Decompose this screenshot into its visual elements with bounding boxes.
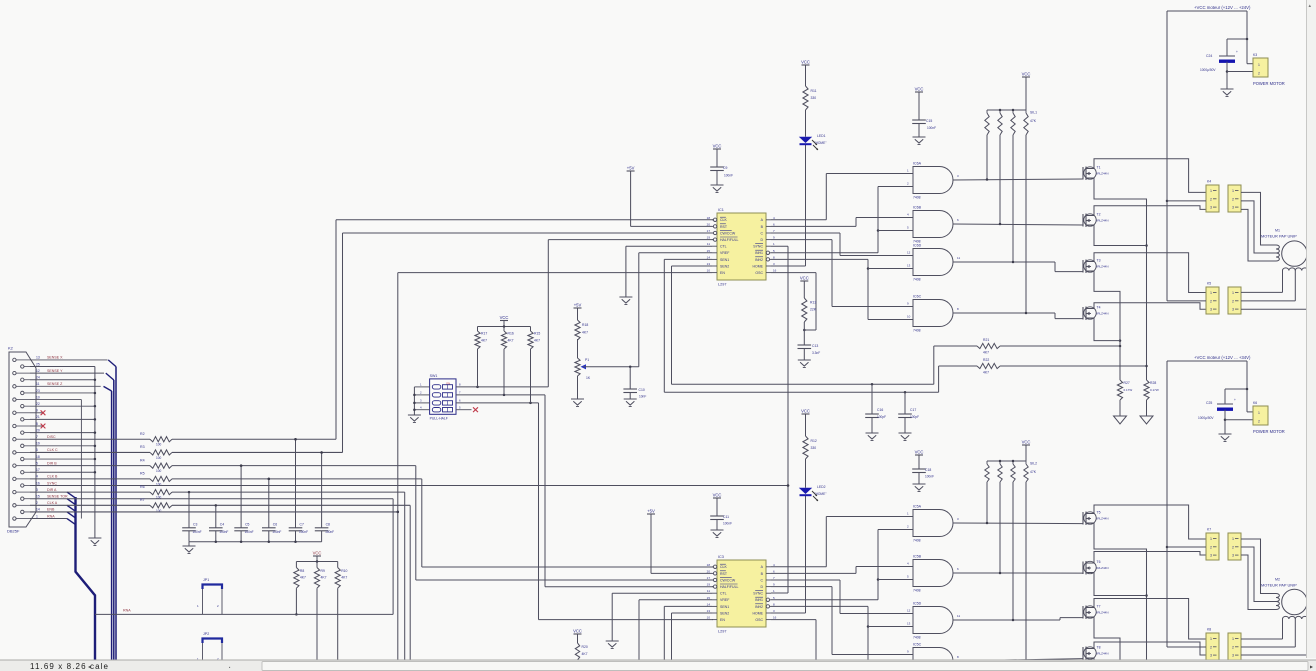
wire T1 drain to K4 pin1 bbox=[1094, 159, 1206, 193]
svg-text:+5V: +5V bbox=[627, 166, 635, 171]
svg-text:R4: R4 bbox=[140, 458, 145, 462]
svg-text:4K7: 4K7 bbox=[983, 371, 989, 375]
svg-text:LED2: LED2 bbox=[817, 485, 826, 489]
ground below C16 bbox=[866, 433, 879, 441]
bus A (navy) lower-left bbox=[76, 497, 96, 663]
svg-text:4K7: 4K7 bbox=[582, 331, 588, 335]
wire IC1 A to IC6A in1 bbox=[771, 174, 913, 220]
svg-text:R8: R8 bbox=[300, 569, 304, 573]
svg-text:R20: R20 bbox=[582, 645, 588, 649]
svg-text:3: 3 bbox=[1210, 308, 1212, 312]
svg-text:+VCC moteur (+12V ... +24V): +VCC moteur (+12V ... +24V) bbox=[1194, 5, 1251, 10]
svg-text:R22: R22 bbox=[983, 358, 989, 362]
svg-text:SENSE TOR: SENSE TOR bbox=[47, 495, 68, 499]
wire net CLK B with resistor R5 100 bbox=[30, 472, 422, 487]
svg-text:C24: C24 bbox=[1206, 54, 1212, 58]
svg-text:100nF: 100nF bbox=[925, 475, 934, 479]
motor M2 phase coil horizontal bbox=[1283, 616, 1309, 655]
wire IC3 D to IC5C in1 bbox=[771, 587, 913, 655]
svg-text:R12: R12 bbox=[811, 439, 817, 443]
power VCC above SIL2 bbox=[1022, 440, 1031, 462]
svg-text:4K7: 4K7 bbox=[321, 576, 327, 580]
svg-text:22K: 22K bbox=[810, 308, 817, 312]
svg-text:SYNC: SYNC bbox=[753, 592, 763, 596]
svg-text:R10: R10 bbox=[341, 569, 347, 573]
svg-text:IRLZ44N: IRLZ44N bbox=[1097, 611, 1109, 615]
svg-text:15: 15 bbox=[707, 596, 711, 600]
wire K3 pin2 to C24 bbox=[1227, 71, 1253, 73]
capacitor C10 10nF bbox=[623, 367, 646, 399]
wire IC1 D to IC6C in1 bbox=[771, 240, 913, 307]
svg-text:C18: C18 bbox=[925, 468, 931, 472]
svg-text:R27: R27 bbox=[1124, 381, 1130, 385]
wire +VCC to K7 pin2 bbox=[1167, 546, 1206, 548]
AND gate IC5B 7408 bbox=[907, 555, 959, 593]
svg-text:R6: R6 bbox=[140, 485, 145, 489]
svg-text:1: 1 bbox=[1258, 411, 1260, 415]
svg-text:13: 13 bbox=[907, 622, 911, 626]
svg-text:IRLZ44N: IRLZ44N bbox=[1097, 172, 1109, 176]
wire DIR A down off-sheet bbox=[404, 492, 406, 663]
svg-text:11: 11 bbox=[957, 256, 960, 260]
svg-text:HALF/FULL: HALF/FULL bbox=[720, 238, 739, 242]
svg-text:VCC: VCC bbox=[801, 409, 810, 414]
wire K8 mate pin2 to coil tap bbox=[1241, 646, 1295, 648]
svg-text:C8: C8 bbox=[326, 522, 330, 526]
svg-text:10: 10 bbox=[36, 395, 40, 399]
no-connect SW1 row4 (red X) bbox=[456, 407, 478, 412]
svg-text:JP2: JP2 bbox=[203, 632, 209, 636]
svg-text:11.69 x 8.26 cale: 11.69 x 8.26 cale bbox=[30, 662, 109, 671]
resistor R28 0.17W bbox=[1144, 380, 1159, 400]
svg-text:SEN1: SEN1 bbox=[720, 258, 729, 262]
wire SW1 row1 up to IC1 HALF/FULL bbox=[548, 240, 713, 387]
power +5V to IC1 RST bbox=[627, 166, 712, 227]
horizontal scrollbar thumb bbox=[262, 662, 1308, 671]
svg-text:JP1: JP1 bbox=[203, 578, 209, 582]
svg-text:16: 16 bbox=[36, 481, 40, 485]
svg-text:13: 13 bbox=[707, 262, 711, 266]
svg-text:1000µ/50V: 1000µ/50V bbox=[1198, 416, 1214, 420]
svg-text:K7: K7 bbox=[1207, 528, 1211, 532]
svg-text:IC3: IC3 bbox=[718, 555, 724, 559]
wire net CLK A with resistor R7 100 bbox=[30, 498, 410, 513]
svg-text:100pF: 100pF bbox=[877, 415, 886, 419]
svg-text:3.3nF: 3.3nF bbox=[812, 351, 820, 355]
svg-text:2: 2 bbox=[36, 501, 38, 505]
wire IC1 B to IC6B in1 bbox=[771, 218, 913, 227]
svg-text:DISC: DISC bbox=[47, 435, 56, 439]
motor M1 MOTEUR PAP UNIP bbox=[1261, 229, 1307, 267]
wire net SENSE TOR bbox=[30, 498, 393, 500]
power VCC above R15-R17 bbox=[478, 315, 531, 328]
wire net CLK C with resistor R3 100 bbox=[30, 445, 343, 460]
wire K7 mate pin3 to coil bottom bbox=[1241, 555, 1276, 610]
wire IC5D out to T7 gate bbox=[953, 618, 1083, 622]
svg-text:1: 1 bbox=[1210, 537, 1212, 541]
wire R8 to RNA line bbox=[295, 588, 298, 615]
wire SW1 row1 to HALF/FULL net bbox=[456, 386, 548, 389]
connector K4 mate bbox=[1228, 185, 1241, 212]
svg-text:T3: T3 bbox=[1097, 259, 1101, 263]
connector K3 POWER MOTOR bbox=[1253, 53, 1285, 86]
svg-text:14: 14 bbox=[707, 602, 711, 606]
svg-text:3: 3 bbox=[1232, 554, 1234, 558]
capacitor C11 100nF bbox=[710, 515, 732, 530]
wire net SYNC long row bbox=[30, 484, 789, 487]
svg-text:18: 18 bbox=[36, 455, 40, 459]
wire +VCC to K3 bbox=[1227, 11, 1253, 64]
resistor R27 0.17W bbox=[1117, 380, 1132, 400]
power rail +VCC moteur bottom bbox=[1167, 355, 1251, 361]
wire SW1 row3 down to IC3 EN bbox=[456, 402, 713, 620]
svg-text:INH1: INH1 bbox=[755, 251, 763, 255]
capacitor C24 1000u/50V electrolytic bbox=[1200, 39, 1238, 89]
svg-text:DIR B: DIR B bbox=[47, 461, 57, 465]
ground below C24 bbox=[1221, 89, 1234, 97]
svg-text:INH2: INH2 bbox=[755, 605, 763, 609]
svg-text:11: 11 bbox=[707, 589, 710, 593]
svg-text:100nF: 100nF bbox=[272, 530, 281, 534]
svg-text:100: 100 bbox=[156, 469, 162, 473]
wire net ENB bbox=[30, 511, 399, 514]
wire R10 down bbox=[337, 588, 339, 662]
svg-text:3: 3 bbox=[1232, 654, 1234, 658]
wire SIL1-2 to phase B bbox=[999, 135, 1001, 224]
svg-text:VCC: VCC bbox=[801, 60, 810, 65]
svg-text:15: 15 bbox=[707, 249, 711, 253]
transistor T4 IRLZ44N bbox=[1083, 306, 1109, 321]
svg-text:1: 1 bbox=[1232, 637, 1234, 641]
svg-text:R16: R16 bbox=[508, 332, 514, 336]
svg-text:RST: RST bbox=[720, 572, 728, 576]
wire IC3 CTL to ground bbox=[612, 593, 712, 641]
resistor R20 4K7 bbox=[575, 643, 588, 660]
svg-text:SEN1: SEN1 bbox=[720, 605, 729, 609]
svg-text:CW/CCW: CW/CCW bbox=[720, 578, 736, 582]
svg-text:1: 1 bbox=[1258, 63, 1260, 67]
svg-text:RNA: RNA bbox=[123, 609, 131, 613]
svg-text:IC1: IC1 bbox=[718, 208, 724, 212]
svg-text:1: 1 bbox=[1210, 291, 1212, 295]
svg-text:C15: C15 bbox=[926, 119, 932, 123]
svg-text:EN: EN bbox=[720, 271, 725, 275]
svg-text:K4: K4 bbox=[1207, 180, 1211, 184]
vertical scrollbar right bbox=[1307, 0, 1316, 658]
svg-text:12: 12 bbox=[907, 609, 911, 613]
wire SW1 common side to ground bbox=[408, 383, 461, 423]
svg-text:T1: T1 bbox=[1097, 166, 1101, 170]
connector K5 bbox=[1206, 282, 1219, 315]
svg-text:C13: C13 bbox=[812, 344, 818, 348]
svg-text:3: 3 bbox=[1210, 554, 1212, 558]
resistor R15 4K7 bbox=[528, 327, 540, 403]
connector K7 bbox=[1206, 528, 1219, 561]
wire +VCC moteur bottom vertical bbox=[1166, 361, 1169, 647]
svg-text:2: 2 bbox=[1232, 299, 1234, 303]
wire IC1 CTL to ground bbox=[626, 246, 712, 297]
wire T2 source join bbox=[1094, 227, 1147, 246]
svg-text:2: 2 bbox=[1258, 420, 1260, 424]
svg-text:17: 17 bbox=[36, 468, 40, 472]
wire K7 mate pin1 to coil top bbox=[1241, 539, 1276, 594]
wire cap ground rail + ground bbox=[183, 541, 322, 554]
svg-text:R13: R13 bbox=[810, 301, 816, 305]
motor M1 phase coil vertical bbox=[1276, 245, 1279, 261]
power VCC above R11 bbox=[801, 60, 810, 87]
resistor R21 4K7 sense line bbox=[934, 338, 1120, 384]
wire IC3 C to IC5D in1 bbox=[771, 580, 913, 614]
svg-text:C9: C9 bbox=[723, 166, 727, 170]
wire R11 to LED1 bbox=[805, 110, 807, 137]
wire P1 wiper to VREF net bbox=[583, 366, 639, 369]
svg-text:K3: K3 bbox=[1253, 53, 1257, 57]
svg-text:IRLZ44N: IRLZ44N bbox=[1097, 265, 1109, 269]
svg-text:4K7: 4K7 bbox=[300, 576, 306, 580]
svg-text:1000µ/50V: 1000µ/50V bbox=[1200, 68, 1216, 72]
svg-text:C10: C10 bbox=[639, 388, 645, 392]
svg-text:2: 2 bbox=[1232, 197, 1234, 201]
ground below C13 bbox=[798, 360, 811, 368]
svg-text:IC6A: IC6A bbox=[913, 162, 922, 166]
svg-text:OSC: OSC bbox=[755, 618, 763, 622]
svg-text:10: 10 bbox=[907, 315, 911, 319]
no-connect pin 9 (red X) bbox=[30, 410, 45, 415]
svg-text:VCC: VCC bbox=[313, 551, 322, 556]
wire R13 to C13 bbox=[803, 322, 805, 345]
wire IC3 INH2 to IC5D/IC5C in2 bbox=[771, 606, 913, 667]
bus B (navy) to bottom edge bbox=[112, 367, 116, 663]
wire DB25 ground pins to ground bbox=[30, 367, 101, 546]
wire SENSE X with bus entry bbox=[30, 360, 116, 367]
wire +VCC to K4 pin2 bbox=[1167, 200, 1206, 202]
svg-text:7408: 7408 bbox=[913, 278, 921, 282]
svg-text:11: 11 bbox=[957, 614, 960, 618]
wire IC5C out to T8 gate bbox=[953, 659, 1083, 663]
capacitor C18 100nF bbox=[912, 468, 934, 484]
wire net RNA from DB25 to bus bbox=[30, 518, 67, 520]
svg-text:2: 2 bbox=[1210, 645, 1212, 649]
svg-text:4K7: 4K7 bbox=[508, 339, 514, 343]
motor M1 phase coil horizontal bbox=[1283, 268, 1309, 309]
svg-text:10nF: 10nF bbox=[639, 395, 646, 399]
svg-text:L297: L297 bbox=[718, 283, 726, 287]
capacitor C4 100nF bbox=[209, 504, 228, 542]
AND gate IC5D 7408 bbox=[907, 602, 960, 640]
svg-text:INH2: INH2 bbox=[755, 258, 763, 262]
power +5V to IC3 RST bbox=[647, 509, 712, 574]
AND gate IC6D 7408 bbox=[907, 244, 960, 282]
svg-text:100nF: 100nF bbox=[724, 174, 733, 178]
svg-text:4K7: 4K7 bbox=[341, 576, 347, 580]
resistor R13 22K bbox=[802, 298, 817, 322]
wire IC1 OSC to R13/C13 node bbox=[771, 273, 816, 332]
AND gate IC5C 7408 bbox=[907, 643, 959, 671]
svg-text:VCC: VCC bbox=[1022, 72, 1031, 77]
svg-text:7408: 7408 bbox=[913, 539, 921, 543]
wire K4 mate pin3 to coil bottom bbox=[1241, 209, 1276, 261]
svg-text:◂: ◂ bbox=[88, 665, 91, 671]
bus A entries rows DIR A / SENSE TOR / CLK A / ENB / RNA bbox=[67, 492, 76, 524]
svg-text:10: 10 bbox=[707, 269, 711, 273]
resistor R11 330 bbox=[803, 86, 817, 110]
wire IC5B out to T6 gate bbox=[953, 572, 1083, 575]
wire T8 drain to K8 pin3 bbox=[1094, 642, 1206, 655]
resistor R8 4K7 bbox=[294, 562, 306, 589]
svg-text:5: 5 bbox=[36, 461, 38, 465]
op-amp U? no - IC1 L297 stepper controller bbox=[707, 208, 777, 287]
svg-text:CLK A: CLK A bbox=[47, 501, 58, 505]
wire IC1 INH1 to IC6A/IC6B in2 bbox=[771, 187, 913, 253]
svg-text:6: 6 bbox=[36, 448, 38, 452]
svg-text:IRLZ44N: IRLZ44N bbox=[1097, 312, 1109, 316]
wire T3 drain to K5 pin1 bbox=[1094, 253, 1206, 293]
svg-text:R15: R15 bbox=[534, 332, 540, 336]
svg-text:CLK: CLK bbox=[720, 218, 727, 222]
wire net DISC with resistor R2 100 bbox=[30, 432, 336, 447]
svg-text:R17: R17 bbox=[481, 332, 487, 336]
svg-text:HOME: HOME bbox=[753, 611, 764, 615]
wire pin10 down to RNA row bbox=[30, 400, 81, 519]
power VCC (red) above R8-R10 bbox=[296, 551, 337, 563]
svg-text:17: 17 bbox=[707, 229, 711, 233]
capacitor C6 100nF bbox=[262, 478, 281, 542]
potentiometer P1 1K bbox=[575, 358, 591, 380]
svg-text:C16: C16 bbox=[877, 408, 883, 412]
svg-text:17: 17 bbox=[707, 576, 711, 580]
svg-text:1: 1 bbox=[1210, 637, 1212, 641]
wire T1/T2 source sense bus bbox=[1094, 180, 1148, 380]
ground below C15 bbox=[913, 137, 926, 145]
svg-text:R11: R11 bbox=[811, 89, 817, 93]
resistor R10 4K7 bbox=[335, 562, 347, 589]
IC3 L297 stepper controller bbox=[707, 555, 777, 634]
svg-text:1: 1 bbox=[1210, 189, 1212, 193]
AND gate IC5A 7408 bbox=[907, 505, 959, 543]
wire T2 drain to K4 pin3 bbox=[1094, 206, 1206, 213]
LED LED2 HOME (blue) bbox=[799, 485, 827, 501]
wire net RNA horizontal bbox=[95, 609, 393, 615]
svg-text:T2: T2 bbox=[1097, 213, 1101, 217]
wire SIL1-1 to phase A bbox=[986, 135, 988, 179]
wire DISC up to IC1 CLK bbox=[336, 220, 713, 439]
svg-text:IRLZ44N: IRLZ44N bbox=[1097, 566, 1109, 570]
ground below C11 bbox=[711, 530, 724, 538]
wire T7 drain to K8 pin1 bbox=[1094, 599, 1206, 640]
wire CLK B down to IC3 CLK bbox=[422, 479, 713, 567]
resistor R16 4K7 bbox=[501, 327, 513, 395]
resistor R17 4K7 bbox=[475, 327, 487, 387]
AND gate IC6A 7408 bbox=[907, 162, 959, 200]
AND gate IC6B 7408 bbox=[907, 206, 959, 244]
svg-text:4K7: 4K7 bbox=[534, 339, 540, 343]
svg-text:20: 20 bbox=[36, 428, 40, 432]
svg-text:16: 16 bbox=[773, 269, 777, 273]
svg-text:9: 9 bbox=[36, 409, 38, 413]
svg-text:POWER MOTOR: POWER MOTOR bbox=[1253, 81, 1285, 86]
wire IC3 A to IC5A in1 bbox=[771, 517, 913, 567]
power VCC above SIL1 bbox=[1022, 72, 1031, 111]
svg-text:4: 4 bbox=[36, 475, 38, 479]
power ground below R28 bbox=[1140, 400, 1153, 424]
power rail +VCC moteur top bbox=[1167, 5, 1251, 11]
svg-text:HALF/FULL: HALF/FULL bbox=[720, 585, 739, 589]
wire IC5A out to T5 gate bbox=[953, 522, 1083, 525]
wire SENSE Z with bus entry bbox=[30, 386, 112, 391]
power VCC above C18 bbox=[915, 450, 924, 470]
svg-text:13: 13 bbox=[36, 356, 40, 360]
ground below C10 bbox=[624, 399, 637, 407]
wire SENSE Y with bus entry bbox=[30, 373, 114, 380]
connector K8 mate bbox=[1228, 633, 1241, 660]
ground below C18 bbox=[913, 484, 926, 492]
svg-text:100: 100 bbox=[156, 443, 162, 447]
status bar bbox=[0, 660, 1316, 671]
svg-text:0.17W: 0.17W bbox=[1150, 388, 1159, 392]
svg-text:VCC: VCC bbox=[915, 450, 924, 455]
resistor R22 4K7 sense line bbox=[939, 358, 1147, 392]
svg-text:2: 2 bbox=[1210, 197, 1212, 201]
wire IC3 SEN2 down bbox=[672, 613, 713, 663]
svg-text:IC5D: IC5D bbox=[913, 602, 922, 606]
wire SIL1-3 to phase C bbox=[1012, 135, 1014, 262]
svg-text:PULL-HALF: PULL-HALF bbox=[430, 417, 448, 421]
resistor R18 4K7 bbox=[575, 320, 588, 340]
svg-text:T6: T6 bbox=[1097, 560, 1101, 564]
wire IC3 B to IC5B in1 bbox=[771, 567, 913, 574]
jumper JP2 bbox=[197, 632, 222, 662]
wire K6 pin2 to C25 bbox=[1225, 419, 1253, 421]
svg-text:SENSE Y: SENSE Y bbox=[47, 369, 63, 373]
wire K8 mate pin1 to coil bbox=[1241, 638, 1283, 640]
svg-text:+5V: +5V bbox=[647, 509, 655, 514]
capacitor C3 100nF bbox=[182, 491, 201, 542]
svg-text:R5: R5 bbox=[140, 472, 145, 476]
svg-text:7408: 7408 bbox=[913, 329, 921, 333]
svg-text:1: 1 bbox=[36, 514, 38, 518]
svg-text:K2: K2 bbox=[8, 346, 14, 351]
wire R9 down bbox=[316, 588, 318, 662]
svg-text:"HOME": "HOME" bbox=[815, 492, 827, 496]
svg-text:15: 15 bbox=[36, 495, 40, 499]
svg-text:22: 22 bbox=[36, 402, 40, 406]
wire IC6C out to T4 gate bbox=[953, 312, 1083, 319]
capacitor C7 100nF bbox=[289, 438, 308, 542]
svg-text:ENB: ENB bbox=[47, 508, 55, 512]
resistor R9 4K7 bbox=[314, 562, 326, 589]
wire T6 drain to K7 pin3 bbox=[1094, 552, 1206, 561]
transistor T8 IRLZ44N bbox=[1083, 646, 1109, 661]
svg-text:100: 100 bbox=[156, 456, 162, 460]
svg-text:CLK B: CLK B bbox=[47, 475, 58, 479]
svg-text:C17: C17 bbox=[910, 408, 916, 412]
svg-text:SYNC: SYNC bbox=[753, 245, 763, 249]
capacitor C16 100pF bbox=[865, 384, 886, 433]
wire SYNC link IC1-IC3 bbox=[771, 246, 789, 593]
svg-text:R3: R3 bbox=[140, 445, 145, 449]
svg-text:13: 13 bbox=[707, 609, 711, 613]
connector K8 bbox=[1206, 628, 1219, 661]
svg-text:+: + bbox=[1234, 398, 1236, 402]
svg-text:7408: 7408 bbox=[913, 589, 921, 593]
svg-text:IC5A: IC5A bbox=[913, 505, 922, 509]
wire SIL2-1 to phase A bbox=[986, 482, 988, 523]
ground below C17 bbox=[899, 433, 912, 441]
svg-text:C3: C3 bbox=[193, 522, 197, 526]
svg-text:RST: RST bbox=[720, 225, 728, 229]
motor M2 MOTEUR PAP UNIP bbox=[1261, 578, 1307, 615]
svg-text:C5: C5 bbox=[245, 522, 249, 526]
